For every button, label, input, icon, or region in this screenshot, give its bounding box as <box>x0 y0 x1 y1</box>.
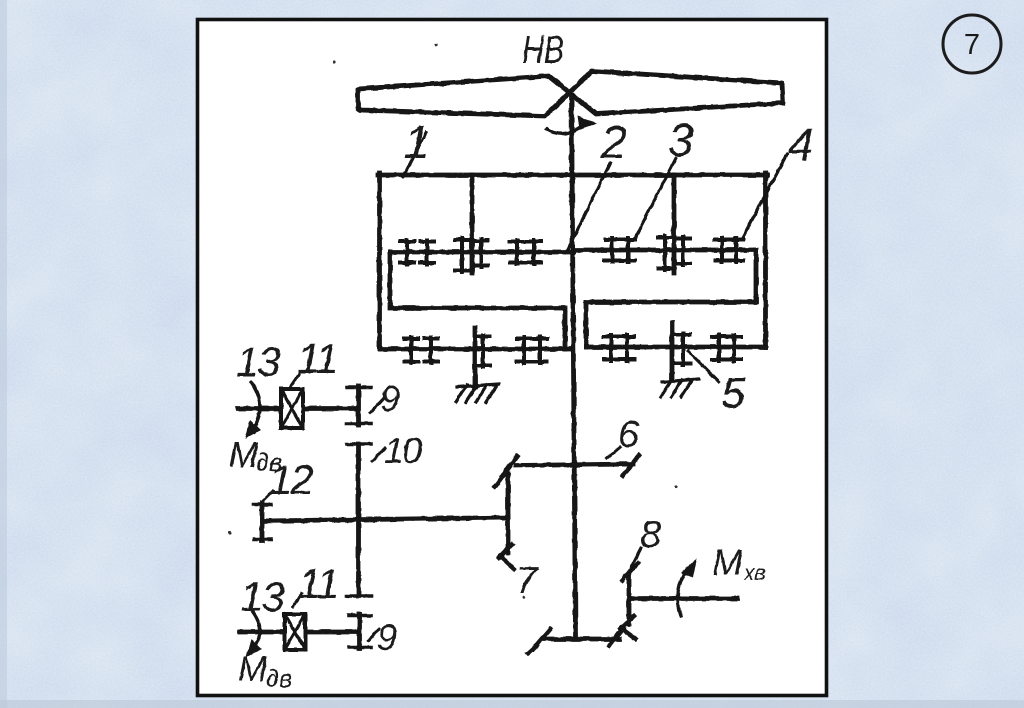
svg-text:4: 4 <box>788 118 814 170</box>
svg-text:11: 11 <box>298 560 338 607</box>
label 11 upper <box>297 335 337 382</box>
svg-text:9: 9 <box>377 617 397 658</box>
upper-left gear shaft row <box>390 250 574 255</box>
svg-text:13: 13 <box>236 338 280 385</box>
leader line 6 <box>607 447 620 458</box>
svg-text:10: 10 <box>384 430 422 471</box>
svg-text:7: 7 <box>964 29 980 61</box>
leader line 4 <box>742 154 787 239</box>
svg-text:М: М <box>712 542 743 583</box>
gear pair lower-left C <box>517 337 547 363</box>
tail rotor bevel gear 8 (vertical with slant ticks) <box>620 563 638 639</box>
label 6 <box>618 414 640 456</box>
leader line 9 lower <box>368 629 379 641</box>
leader line 8 <box>629 548 641 571</box>
svg-text:13: 13 <box>240 573 284 620</box>
svg-text:М: М <box>238 650 268 689</box>
white panel with border <box>198 20 827 696</box>
lower engine input shaft <box>240 630 357 635</box>
leader line 10 <box>372 448 385 461</box>
gear 10 symbol (top cap) <box>347 442 371 446</box>
leader line 11 upper <box>290 374 299 387</box>
label 1 <box>404 116 430 168</box>
gear pair lower-right C <box>712 335 741 361</box>
ground symbol left (fixed ring gear) <box>456 384 499 402</box>
bevel gear 6 (horizontal with slant ticks) <box>502 455 639 476</box>
tail rotor shaft <box>630 596 737 601</box>
upper-right ring bracket: down, step left, down to lower row <box>586 250 756 347</box>
gear lower-left B <box>476 335 490 367</box>
svg-text:2: 2 <box>600 116 627 168</box>
gear pair lower-left A <box>404 337 438 363</box>
svg-text:∂в: ∂в <box>266 663 292 693</box>
gear pair upper-left C <box>510 240 541 264</box>
rotor blades НВ <box>358 71 783 116</box>
gearbox housing top line <box>378 173 767 178</box>
gearbox housing right wall <box>763 173 768 347</box>
lower-left gear shaft row <box>380 347 571 352</box>
svg-text:9: 9 <box>380 378 400 419</box>
rotation arrow at rotor shaft <box>547 116 597 134</box>
svg-text:3: 3 <box>668 114 694 166</box>
planet axle to ground (left) <box>473 328 478 386</box>
lay shaft vertical <box>356 444 361 596</box>
label Мдв lower <box>238 650 292 693</box>
label 5 <box>721 369 746 418</box>
gear pair upper-left B (sun/planet at carrier) <box>455 238 488 272</box>
svg-text:6: 6 <box>618 414 640 456</box>
leader line 9 upper <box>370 398 384 413</box>
lower-right gear shaft row <box>586 345 766 350</box>
gear pair lower-right A <box>604 335 634 361</box>
svg-text:хв: хв <box>743 562 766 585</box>
torque arrow Мхв <box>678 558 697 616</box>
leader line 12 <box>262 491 273 502</box>
planet axle to ground (right) <box>670 323 675 381</box>
bevel gear 9 upper (I-beam) <box>347 386 371 425</box>
label 12 <box>269 456 313 503</box>
upper-left ring bracket: down, step right, down to lower row <box>390 252 565 349</box>
gearbox housing left wall <box>377 173 382 349</box>
coupling 11 lower (crossed box) <box>285 614 306 650</box>
label 3 <box>668 114 694 166</box>
leader line 5 <box>688 351 719 382</box>
bottom bevel gear on main shaft <box>528 628 623 653</box>
label 11 lower <box>298 560 338 607</box>
ground symbol right (fixed ring gear) <box>661 379 699 397</box>
upper engine input shaft <box>238 406 356 411</box>
label 8 <box>640 514 661 556</box>
label 9 upper <box>380 378 400 419</box>
svg-text:7: 7 <box>516 560 539 602</box>
leader line 3 <box>635 158 676 238</box>
gear 12 (I-beam) <box>254 503 271 541</box>
leader line 11 lower <box>293 593 302 607</box>
scan specks <box>228 35 677 599</box>
rotor shaft (vertical from hub to gearbox) <box>572 96 576 636</box>
label НВ (main rotor) <box>522 29 564 72</box>
gear lower-right B <box>676 333 690 365</box>
input torque arrow 13 lower <box>246 612 262 657</box>
label Мдв upper <box>229 436 282 477</box>
label 13 lower <box>240 573 284 620</box>
gear 10 mirror cap (bottom) <box>347 594 371 598</box>
svg-text:11: 11 <box>297 335 337 382</box>
leader line 2 <box>568 163 610 249</box>
gear pair upper-right A <box>605 238 635 262</box>
leader line 1 <box>403 133 426 177</box>
carrier link right (vertical) <box>672 175 677 273</box>
label 13 upper <box>236 338 280 385</box>
label Мхв <box>712 542 766 585</box>
label 7 <box>516 560 539 602</box>
gear pair upper-left A <box>400 240 434 264</box>
label 10 <box>384 430 422 471</box>
svg-text:8: 8 <box>640 514 661 556</box>
gear pair upper-right C <box>715 238 743 262</box>
bevel gear 7 (vertical with slant ticks) <box>495 467 514 569</box>
label 2 <box>600 116 627 168</box>
svg-text:1: 1 <box>404 116 430 168</box>
svg-text:5: 5 <box>721 369 746 418</box>
carrier link left (vertical) <box>470 175 475 273</box>
page number circle 7 <box>943 15 1001 73</box>
svg-text:12: 12 <box>269 456 313 503</box>
input torque arrow 13 upper <box>245 382 261 439</box>
bevel gear 9 lower (I-beam) <box>349 614 371 648</box>
svg-text:М: М <box>229 436 259 475</box>
label 9 lower <box>377 617 397 658</box>
cross shaft from gear 12 to bevel 7 <box>262 518 508 522</box>
gear pair upper-right B (at carrier) <box>658 236 690 270</box>
label 4 <box>788 118 814 170</box>
coupling 11 upper (crossed box) <box>281 389 303 428</box>
upper-right gear shaft row <box>576 248 756 253</box>
